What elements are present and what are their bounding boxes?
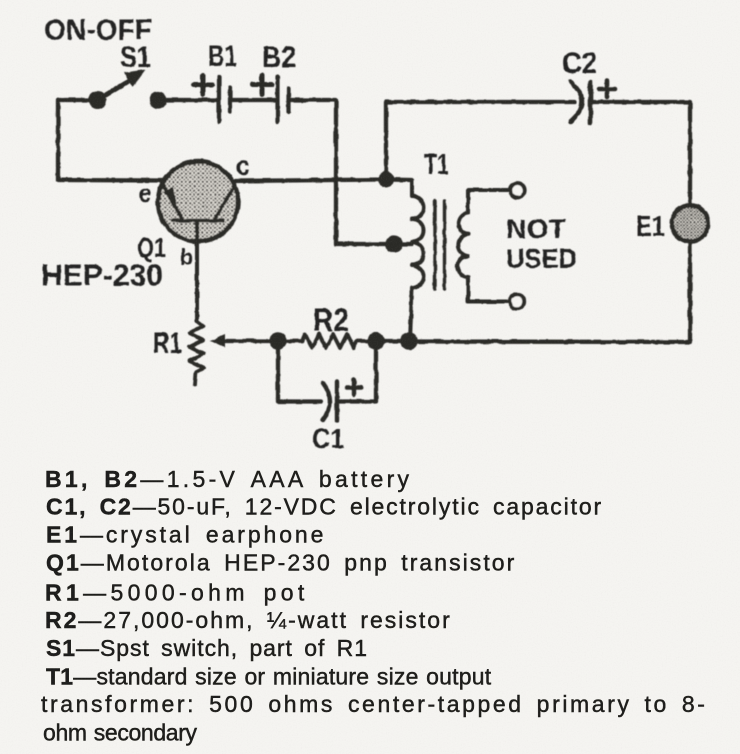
switch S1 lever xyxy=(98,79,134,101)
junction dot: R2 left node xyxy=(269,332,287,350)
battery B1 xyxy=(217,77,221,122)
switch S1 pole terminal xyxy=(89,91,107,109)
parts list text xyxy=(41,466,708,746)
potentiometer R1 xyxy=(190,321,204,384)
resistor R2 xyxy=(278,334,376,348)
wire: C1 left lead xyxy=(278,341,321,402)
wire: E1 bottom down and bottom rail to T1 junction xyxy=(411,242,690,342)
junction dot: collector node xyxy=(378,172,394,188)
wire: B1 to B2 xyxy=(232,98,275,102)
wire: switch throw to battery B1 xyxy=(158,98,217,102)
wire: C2 to E1 top xyxy=(591,102,690,205)
battery B2 xyxy=(275,77,279,122)
switch S1 throw terminal xyxy=(149,92,166,109)
wire: C1 right lead xyxy=(339,341,376,402)
capacitor C1 xyxy=(323,383,330,420)
junction dot: R2 right node xyxy=(367,332,384,349)
transformer T1 secondary winding xyxy=(457,190,509,302)
earphone E1 xyxy=(672,205,708,241)
wire: rail T1 junction to R2 right node xyxy=(376,339,409,343)
junction dot: center tap node xyxy=(385,235,402,252)
transformer T1 core xyxy=(433,201,436,289)
transformer T1 primary winding xyxy=(410,180,424,341)
wire: collector node up and top rail to C2 xyxy=(386,102,575,180)
wire: Q1 base lead to R1 xyxy=(195,222,199,321)
wire: R1 wiper arm xyxy=(224,339,278,343)
capacitor C2 xyxy=(571,82,583,122)
wire: B2 right, down, to T1 center tap xyxy=(290,100,412,244)
wire: switch pole left, down, to Q1 emitter xyxy=(58,100,163,181)
wire: Q1 collector to T1 primary top xyxy=(234,180,412,182)
terminal: secondary top xyxy=(510,183,524,197)
junction dot: T1 bottom node xyxy=(400,332,418,350)
transistor Q1 xyxy=(158,162,238,242)
terminal: secondary bottom xyxy=(510,294,524,308)
